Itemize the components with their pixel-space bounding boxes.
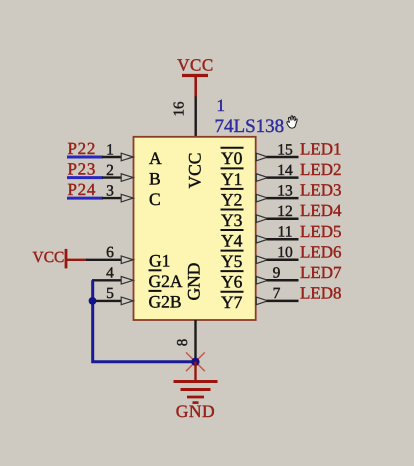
svg-text:Y6: Y6 [221, 272, 243, 292]
pin 10 [256, 244, 298, 263]
svg-text:A: A [149, 148, 162, 168]
pin name Y6 with overline [221, 271, 244, 291]
wire vertical (pins 4,5 to ground net) [93, 280, 196, 362]
svg-text:G1: G1 [149, 250, 170, 270]
svg-text:10: 10 [277, 244, 293, 261]
svg-text:Y2: Y2 [221, 189, 242, 209]
pin name G2B with overline [149, 291, 182, 312]
svg-text:Y4: Y4 [221, 230, 243, 250]
pin 11 [256, 224, 298, 243]
svg-text:GND: GND [184, 263, 204, 301]
no-ERC red X marker [186, 352, 205, 371]
svg-text:74LS138: 74LS138 [215, 116, 285, 137]
junction at ground node [191, 358, 199, 366]
pin name Y3 with overline [221, 210, 244, 230]
svg-text:1: 1 [106, 141, 114, 158]
pin 15 [256, 141, 298, 160]
pin 14 [256, 162, 298, 181]
pin 8 wire [175, 320, 196, 362]
svg-text:15: 15 [277, 141, 293, 158]
wire net P22 [67, 156, 103, 159]
pin name Y2 with overline [221, 189, 244, 209]
pin 13 [256, 183, 298, 202]
pin name Y5 with overline [221, 251, 244, 271]
power port VCC (left) [33, 249, 88, 269]
hand cursor [287, 116, 297, 128]
svg-text:Y7: Y7 [221, 292, 243, 312]
pin 9 [256, 265, 298, 284]
junction at pin 5 [89, 297, 97, 305]
pin 3 [102, 183, 133, 202]
svg-text:B: B [149, 169, 161, 189]
svg-text:2: 2 [106, 162, 114, 179]
svg-text:13: 13 [277, 183, 293, 200]
svg-text:7: 7 [273, 285, 281, 302]
svg-text:GND: GND [176, 401, 215, 421]
svg-text:LED3: LED3 [300, 181, 342, 200]
svg-text:9: 9 [273, 265, 281, 282]
svg-text:14: 14 [277, 162, 293, 179]
svg-text:P22: P22 [68, 139, 97, 158]
svg-text:4: 4 [106, 265, 114, 282]
pin 12 [256, 203, 298, 222]
svg-text:C: C [149, 189, 161, 209]
svg-text:12: 12 [277, 203, 293, 220]
wire net P24 [67, 197, 103, 200]
svg-text:1: 1 [217, 96, 226, 115]
svg-text:LED5: LED5 [300, 222, 342, 241]
svg-text:LED4: LED4 [300, 201, 342, 220]
pin name Y1 with overline [221, 168, 244, 188]
svg-text:G2A: G2A [149, 271, 183, 291]
pin 4 [92, 265, 133, 284]
svg-text:11: 11 [278, 224, 293, 241]
power port VCC (top) [177, 56, 213, 98]
svg-text:Y1: Y1 [221, 169, 242, 189]
svg-text:P24: P24 [68, 180, 97, 199]
svg-text:G2B: G2B [149, 292, 182, 312]
pin name G2A with overline [149, 270, 183, 291]
svg-text:Y0: Y0 [221, 148, 243, 168]
svg-text:LED1: LED1 [300, 140, 342, 159]
pin 6 [86, 244, 133, 263]
IC U1 74LS138 body [134, 137, 256, 320]
svg-text:LED8: LED8 [300, 284, 342, 303]
pin 7 [256, 285, 298, 304]
pin name Y7 with overline [221, 292, 244, 312]
svg-text:Y3: Y3 [221, 210, 243, 230]
svg-text:VCC: VCC [185, 153, 205, 189]
svg-text:LED7: LED7 [300, 263, 342, 282]
wire net P23 [67, 176, 103, 179]
svg-text:5: 5 [106, 285, 114, 302]
pin 1 [102, 141, 133, 160]
pin name Y0 with overline [221, 148, 244, 168]
svg-text:Y5: Y5 [221, 251, 243, 271]
pin name Y4 with overline [221, 230, 244, 250]
svg-text:8: 8 [175, 339, 191, 347]
pin 2 [102, 162, 133, 181]
pin 16 wire [171, 97, 195, 137]
svg-text:6: 6 [106, 244, 114, 261]
svg-text:LED2: LED2 [300, 160, 342, 179]
svg-text:VCC: VCC [177, 56, 213, 75]
pin 5 [92, 285, 133, 304]
ground symbol [174, 362, 218, 403]
svg-text:P23: P23 [68, 159, 97, 178]
svg-text:LED6: LED6 [300, 242, 342, 261]
svg-text:3: 3 [106, 183, 114, 200]
svg-text:VCC: VCC [33, 249, 65, 266]
svg-text:16: 16 [171, 101, 187, 117]
